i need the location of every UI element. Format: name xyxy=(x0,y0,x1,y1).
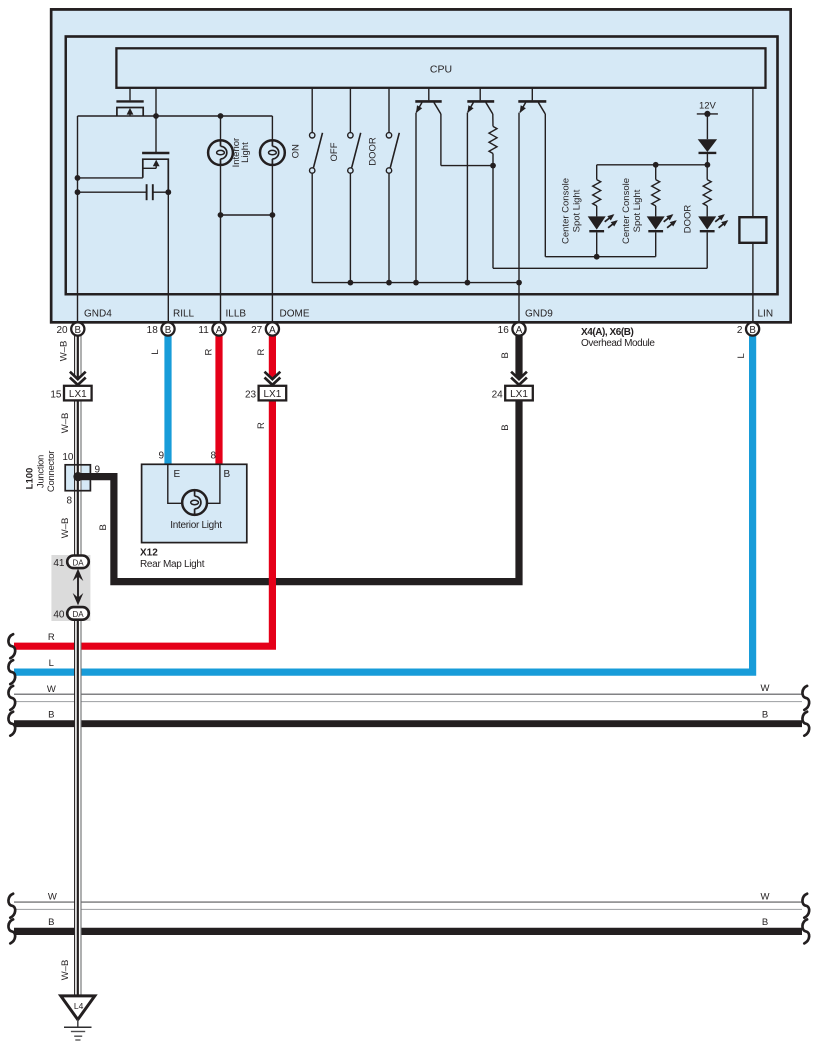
junction dot common bus xyxy=(465,280,471,286)
svg-text:RILL: RILL xyxy=(173,309,195,320)
wire R (DOME) pin to arrow xyxy=(269,334,276,377)
wire Q5 emitter to pin GND9 xyxy=(518,113,520,322)
wire lamp link y215 xyxy=(221,214,273,216)
wire W-B vertical (GND4 down) xyxy=(74,400,81,556)
CPU block U1 xyxy=(116,48,765,88)
junction dot lamp link left xyxy=(218,212,224,218)
lamp Interior Light 2 xyxy=(260,140,285,165)
switch OFF bottom contact xyxy=(348,168,353,173)
transistor Q5 xyxy=(531,88,533,100)
X12 internal bracket xyxy=(168,464,220,503)
junction dot GND4/C1 xyxy=(75,189,81,195)
break symbol R left xyxy=(8,634,15,658)
svg-text:B: B xyxy=(48,917,54,928)
ground L4 triangle xyxy=(61,996,95,1020)
svg-text:15: 15 xyxy=(50,389,62,400)
svg-text:8: 8 xyxy=(66,496,72,507)
svg-text:B: B xyxy=(762,710,768,721)
junction dot led rail x655 xyxy=(653,162,659,168)
ground hatch 4 xyxy=(75,1039,80,1041)
led string D2 Center Console Spot Light 1 xyxy=(596,165,598,180)
connector 23 LX1 xyxy=(259,386,287,401)
connector 40 DA oval xyxy=(67,607,89,620)
svg-text:Rear Map Light: Rear Map Light xyxy=(140,559,205,570)
break symbol W lower right xyxy=(802,894,809,918)
svg-text:8: 8 xyxy=(210,451,216,462)
switch DOOR bottom lead xyxy=(388,173,390,282)
break symbol B lower left xyxy=(8,919,15,943)
switch DOOR top contact xyxy=(386,133,391,138)
wire node down to DOOR led return xyxy=(492,166,494,269)
wire B bus upper xyxy=(14,720,802,727)
break symbol W upper left xyxy=(8,686,15,710)
wire Q3 collector down xyxy=(440,114,442,166)
junction dot lamp1 top xyxy=(218,113,224,119)
wire Q5 collector to led pair xyxy=(545,256,655,258)
svg-text:9: 9 xyxy=(95,465,101,476)
svg-text:Junction: Junction xyxy=(36,455,47,488)
svg-text:R: R xyxy=(256,348,267,355)
wire DOOR led return up xyxy=(706,232,708,268)
wire B net thick (LX1-L100) xyxy=(92,400,519,581)
wire LIN box to pin xyxy=(752,243,754,322)
svg-text:DOME: DOME xyxy=(280,309,310,320)
wire GND4 rail xyxy=(77,116,79,322)
pin 20 (B) xyxy=(71,322,84,335)
svg-text:Spot Light: Spot Light xyxy=(632,189,643,232)
wire led2 bottom lead xyxy=(655,232,657,256)
switch ON bottom contact xyxy=(310,168,315,173)
wire Q3 collector to node xyxy=(441,165,493,167)
svg-text:L: L xyxy=(736,353,747,358)
wire R (ILLB to X12 pin8) xyxy=(215,334,222,465)
wire B net thick (pin16 to arrow) xyxy=(515,334,522,377)
pin 2 (B) xyxy=(746,322,759,335)
arrow down into 40 xyxy=(73,593,84,605)
ground hatch 1 xyxy=(64,1026,92,1028)
switch ON top contact xyxy=(310,133,315,138)
wire Q2 source to GND4 rail xyxy=(78,177,143,179)
break symbol L left xyxy=(8,660,15,684)
switch DOOR top lead xyxy=(388,88,390,133)
switch OFF top contact xyxy=(348,133,353,138)
wire L100 stub to dot xyxy=(78,473,92,480)
wire L (LIN) vertical+horizontal xyxy=(14,334,753,672)
svg-text:16: 16 xyxy=(498,325,510,336)
wire Q4 collector stub xyxy=(492,114,494,126)
module outer border (over) xyxy=(51,9,791,322)
led string D3 Center Console Spot Light 2 xyxy=(655,165,657,180)
connector DA grey panel xyxy=(51,555,90,621)
wire W-B vertical lower xyxy=(74,619,81,997)
wire W bus lower xyxy=(14,901,802,903)
wire lamp1 top lead xyxy=(220,116,222,140)
junction dot GND4/Q2 source xyxy=(75,175,81,181)
pin 18 (B) xyxy=(161,322,174,335)
mosfet Q2 gate bar xyxy=(142,152,169,154)
wire W-B vertical (pin20 to arrow) xyxy=(74,334,81,377)
svg-text:X4(A), X6(B): X4(A), X6(B) xyxy=(581,327,634,338)
wire lamp1 bottom lead to pin ILLB xyxy=(220,165,222,322)
svg-text:LX1: LX1 xyxy=(264,389,282,400)
svg-text:DOOR: DOOR xyxy=(367,137,378,166)
arrow down into 41 xyxy=(73,569,84,581)
svg-text:DA: DA xyxy=(72,610,84,619)
mosfet Q2 channel xyxy=(143,159,169,192)
svg-text:Connector: Connector xyxy=(46,451,57,492)
junction dot Q3/Q4 node xyxy=(490,163,496,169)
pin 16 (A) xyxy=(512,322,525,335)
junction dot L100 xyxy=(73,472,82,481)
svg-text:LX1: LX1 xyxy=(510,389,528,400)
switch DOOR blade xyxy=(390,133,399,168)
break symbol W lower left xyxy=(8,894,15,918)
switch ON top lead xyxy=(311,88,313,133)
ground hatch 3 xyxy=(74,1035,82,1037)
wire B bus lower xyxy=(14,928,802,935)
junction dot common bus xyxy=(516,280,522,286)
capacitor C1 plates xyxy=(146,184,148,200)
svg-text:W–B: W–B xyxy=(59,341,70,362)
svg-text:10: 10 xyxy=(62,452,74,463)
switch OFF blade xyxy=(352,133,361,168)
svg-text:CPU: CPU xyxy=(430,64,452,76)
svg-text:2: 2 xyxy=(737,325,743,336)
inline arrow GND4 xyxy=(70,372,86,379)
wire Q2 drain to pin RILL xyxy=(167,192,169,321)
resistor R1 (Q4 collector) xyxy=(489,126,497,153)
svg-text:Overhead Module: Overhead Module xyxy=(581,338,655,349)
capacitor C1 lead right xyxy=(153,191,169,193)
break symbol B upper right xyxy=(802,712,809,736)
junction dot led rail x707 xyxy=(705,162,711,168)
svg-text:W: W xyxy=(48,892,57,903)
svg-text:ON: ON xyxy=(291,144,302,158)
switch ON blade xyxy=(314,133,323,168)
wire 12V to diode D1 xyxy=(706,114,708,139)
junction dot Q1/Q2 gate node xyxy=(153,113,159,119)
mosfet Q2 source tap xyxy=(143,167,156,169)
wire L (RILL to X12 pin9) xyxy=(164,334,171,465)
connector 15 LX1 xyxy=(64,386,92,401)
svg-text:27: 27 xyxy=(251,325,263,336)
wire led1 bottom lead xyxy=(596,232,598,256)
lamp X12 Interior Light xyxy=(182,490,207,515)
svg-text:L100: L100 xyxy=(25,468,36,490)
wire Q4 emitter down xyxy=(466,113,468,283)
wire node to Q2 gate xyxy=(155,116,157,152)
connector 41 DA oval xyxy=(67,556,89,569)
wire Q5 collector down xyxy=(544,114,546,257)
wire lamp2 top lead xyxy=(271,116,273,140)
module inner boundary box (over) xyxy=(66,37,778,295)
wire CPU to Q1 gate xyxy=(129,88,131,100)
svg-text:A: A xyxy=(216,325,223,336)
svg-text:B: B xyxy=(75,325,82,336)
svg-text:B: B xyxy=(749,325,756,336)
pin 11 (A) xyxy=(212,322,225,335)
junction dot common bus xyxy=(348,280,354,286)
svg-text:LIN: LIN xyxy=(758,309,774,320)
12V supply tick xyxy=(697,113,718,115)
junction dot Q2 drain/C1 xyxy=(165,189,171,195)
svg-text:ILLB: ILLB xyxy=(226,309,247,320)
svg-text:DOOR: DOOR xyxy=(683,205,694,234)
svg-text:B: B xyxy=(224,469,231,480)
inline arrow GND9 xyxy=(511,372,527,379)
wire switch common bus xyxy=(312,282,519,284)
switch DOOR bottom contact xyxy=(386,168,391,173)
wire lamp2 bottom lead to pin DOME xyxy=(271,165,273,322)
svg-text:L4: L4 xyxy=(74,1001,84,1011)
svg-text:18: 18 xyxy=(147,325,159,336)
wire led top rail xyxy=(597,164,708,166)
mosfet Q1 substrate arrow xyxy=(127,108,134,115)
lamp Interior Light 1 xyxy=(208,140,233,165)
wire Q3 emitter down xyxy=(415,113,417,283)
svg-text:W–B: W–B xyxy=(60,960,71,981)
svg-text:B: B xyxy=(98,524,109,530)
junction connector L100 border xyxy=(65,465,90,491)
svg-text:W–B: W–B xyxy=(60,413,71,434)
svg-text:12V: 12V xyxy=(699,101,717,112)
transistor Q4 xyxy=(479,88,481,100)
break symbol W upper right xyxy=(802,686,809,710)
svg-text:LX1: LX1 xyxy=(69,389,87,400)
break symbol B lower right xyxy=(802,919,809,943)
svg-text:W: W xyxy=(761,683,770,694)
break symbol B upper left xyxy=(8,712,15,736)
svg-text:40: 40 xyxy=(53,609,65,620)
module inner boundary box xyxy=(66,37,778,295)
svg-text:GND4: GND4 xyxy=(84,309,112,320)
svg-text:Center Console: Center Console xyxy=(621,178,632,244)
svg-text:9: 9 xyxy=(158,451,164,462)
connector 24 LX1 xyxy=(505,386,533,401)
inline arrow DOME xyxy=(265,372,281,379)
rear map light X12 box xyxy=(142,464,247,542)
svg-text:W–B: W–B xyxy=(60,518,71,539)
svg-text:24: 24 xyxy=(492,389,504,400)
svg-text:R: R xyxy=(48,632,55,643)
switch OFF bottom lead xyxy=(349,173,351,282)
wire D1 to led rail xyxy=(706,153,708,165)
svg-text:Center Console: Center Console xyxy=(560,178,571,244)
wire CPU to node x156 xyxy=(155,88,157,116)
svg-text:B: B xyxy=(165,325,172,336)
svg-text:Interior Light: Interior Light xyxy=(170,520,222,531)
capacitor C1 lead left xyxy=(78,191,147,193)
svg-text:A: A xyxy=(269,325,276,336)
wire W bus upper xyxy=(14,693,802,695)
led string D4 DOOR xyxy=(706,165,708,180)
mosfet Q1 gate bar xyxy=(116,100,143,102)
svg-text:B: B xyxy=(762,917,768,928)
svg-text:11: 11 xyxy=(198,325,209,336)
junction dot led1 return xyxy=(594,254,600,260)
ground stem xyxy=(77,1020,79,1028)
svg-text:23: 23 xyxy=(245,389,257,400)
svg-text:41: 41 xyxy=(53,558,65,569)
diode D1 xyxy=(698,139,717,152)
svg-text:L: L xyxy=(150,349,161,354)
overhead module outer box X4/X6 xyxy=(51,9,791,322)
mosfet Q2 substrate arrow xyxy=(153,160,160,167)
junction dot common bus xyxy=(386,280,392,286)
junction dot common bus xyxy=(413,280,419,286)
wire R (DOME) vertical+horizontal xyxy=(14,400,272,646)
svg-text:20: 20 xyxy=(56,325,68,336)
wire between DA arrows xyxy=(77,577,79,599)
transistor Q3 xyxy=(428,88,430,100)
svg-text:DA: DA xyxy=(72,558,84,567)
switch OFF top lead xyxy=(349,88,351,133)
svg-text:W: W xyxy=(47,684,56,695)
node wire y116 (source rail to lamps) xyxy=(78,115,273,117)
svg-text:X12: X12 xyxy=(140,547,158,558)
switch ON bottom lead xyxy=(311,173,313,282)
ground hatch 2 xyxy=(71,1031,85,1033)
junction dot lamp link right xyxy=(270,212,276,218)
wire DOOR led return horizontal xyxy=(493,267,707,269)
mosfet Q1 channel xyxy=(117,108,143,117)
svg-text:B: B xyxy=(500,424,511,430)
svg-text:R: R xyxy=(256,422,267,429)
LIN interface box U2 xyxy=(739,217,766,243)
svg-text:L: L xyxy=(49,658,54,669)
svg-text:B: B xyxy=(500,352,511,358)
svg-text:GND9: GND9 xyxy=(525,309,553,320)
junction connector L100 box fill xyxy=(65,465,90,491)
svg-text:B: B xyxy=(48,710,54,721)
svg-text:OFF: OFF xyxy=(329,142,340,161)
wire R1 to node xyxy=(492,154,494,166)
svg-text:W: W xyxy=(761,892,770,903)
svg-text:A: A xyxy=(516,325,523,336)
svg-text:Light: Light xyxy=(240,142,251,163)
pin 27 (A) xyxy=(266,322,279,335)
wire CPU to LIN box xyxy=(752,88,754,217)
svg-text:E: E xyxy=(174,469,181,480)
svg-text:Spot Light: Spot Light xyxy=(571,189,582,232)
svg-text:R: R xyxy=(203,348,214,355)
